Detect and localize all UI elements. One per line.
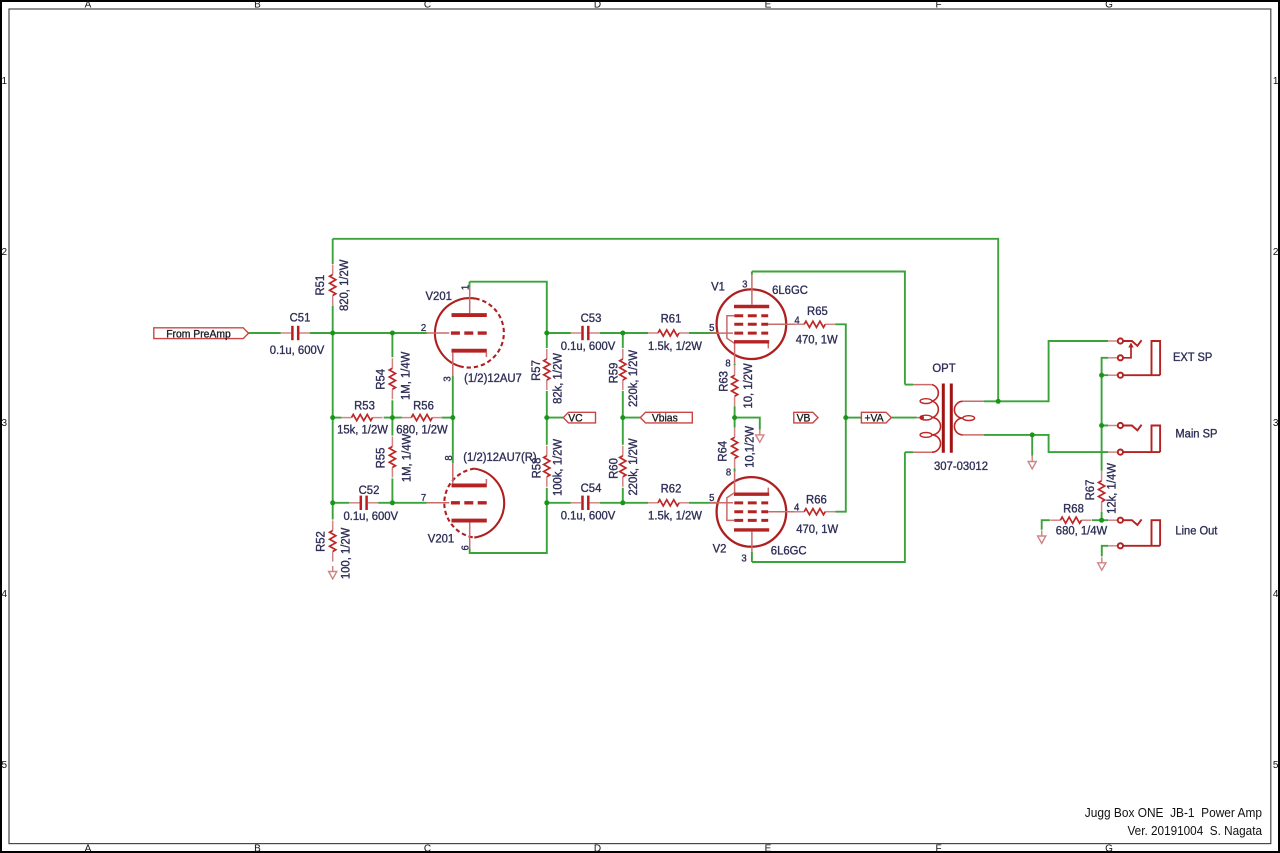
svg-text:G: G [1105,0,1113,11]
svg-text:100, 1/2W: 100, 1/2W [338,527,352,579]
svg-text:R60: R60 [606,458,620,479]
wire [546,488,548,503]
svg-text:F: F [935,0,941,11]
wire [1031,435,1033,456]
svg-text:Main SP: Main SP [1175,426,1217,440]
svg-text:C52: C52 [359,483,380,497]
V2 g3 tie [727,493,734,521]
svg-text:R53: R53 [354,398,375,412]
net label +VA [861,412,891,423]
svg-text:From PreAmp: From PreAmp [166,328,231,340]
svg-text:E: E [765,0,772,11]
svg-text:1.5k, 1/2W: 1.5k, 1/2W [648,509,702,523]
resistor R61 [648,332,658,334]
svg-text:C: C [424,843,431,853]
svg-text:6L6GC: 6L6GC [771,544,807,558]
resistor R57 [546,349,548,359]
svg-text:4: 4 [2,589,8,600]
V1 grid g1 [734,332,768,335]
svg-text:R65: R65 [807,304,828,318]
transformer OPT primary [932,385,941,453]
connector J Line Out [1108,519,1117,521]
capacitor C53 [581,326,584,340]
svg-text:82k, 1/2W: 82k, 1/2W [551,353,565,404]
transformer OPT secondary [954,401,962,435]
V1 screen pin 4 [768,323,804,325]
wire [332,306,334,520]
svg-text:2: 2 [421,322,426,334]
junction [330,415,335,420]
V201a grid [451,331,489,334]
resistor R67 [1101,471,1103,481]
svg-text:3: 3 [2,418,8,429]
svg-text:B: B [254,843,261,853]
resistor R66 [794,511,804,513]
wire [891,417,917,419]
svg-text:1M, 1/4W: 1M, 1/4W [399,434,413,483]
wire [734,364,736,366]
resistor R64 [734,427,736,437]
svg-text:D: D [594,0,601,11]
wire [332,239,334,264]
junction [996,399,1001,404]
junction [450,415,455,420]
OPT core [942,384,945,453]
svg-text:1: 1 [1273,76,1279,87]
svg-text:6L6GC: 6L6GC [772,283,808,297]
svg-text:A: A [85,843,92,853]
svg-text:6: 6 [460,545,472,550]
resistor R68 [1050,519,1060,521]
global label From PreAmp [154,328,249,339]
wire [622,391,624,445]
svg-text:(1/2)12AU7: (1/2)12AU7 [464,371,522,385]
svg-text:V2: V2 [713,542,727,556]
svg-text:5: 5 [2,760,8,771]
V2 cathode [734,493,769,496]
ground at Line Out [1098,563,1106,570]
V1 grid g2 [734,323,768,326]
svg-text:F: F [935,843,941,853]
wire [248,332,280,334]
svg-text:3: 3 [741,553,746,565]
svg-text:5: 5 [1273,760,1279,771]
net label Vbias [640,412,692,423]
V201a cathode hook [485,353,487,357]
svg-text:C: C [424,0,431,11]
svg-text:R62: R62 [661,481,682,495]
junction [390,500,395,505]
wire [310,332,427,334]
svg-text:(1/2)12AU7(R): (1/2)12AU7(R) [463,450,536,464]
svg-text:0.1u, 600V: 0.1u, 600V [561,339,616,353]
wire [623,417,641,419]
svg-text:EXT SP: EXT SP [1173,350,1212,364]
svg-text:4: 4 [1273,589,1279,600]
wire [835,324,846,511]
svg-text:0.1u, 600V: 0.1u, 600V [561,509,616,523]
wire [751,552,753,562]
wire [1092,519,1102,521]
svg-text:470, 1W: 470, 1W [796,333,838,347]
wire [1102,375,1109,425]
svg-text:V1: V1 [711,280,725,294]
svg-text:Ver. 20191004 S. Nagata: Ver. 20191004 S. Nagata [1128,823,1263,838]
wire [546,333,548,348]
svg-text:R68: R68 [1063,501,1084,515]
svg-text:B: B [254,0,261,11]
V2 plate [734,528,769,531]
V2 plate pin 3 [751,532,753,552]
resistor R55 [391,437,393,447]
svg-text:680, 1/2W: 680, 1/2W [396,422,448,436]
svg-text:A: A [85,0,92,11]
junction [390,415,395,420]
V1 cathode pin 8 [734,344,736,364]
junction [330,500,335,505]
wire [752,272,905,385]
junction [544,331,549,336]
svg-text:3: 3 [441,376,453,381]
wire [470,282,547,333]
wire [622,488,624,503]
svg-text:R58: R58 [529,458,543,479]
svg-text:VB: VB [797,413,811,425]
resistor R60 [622,446,624,456]
connector J EXT SP [1108,340,1117,342]
svg-text:Vbias: Vbias [652,413,678,425]
V2 grid g3 [734,519,768,522]
wire [546,391,548,445]
ground below R52 [329,572,337,579]
svg-text:8: 8 [726,467,731,479]
svg-text:470, 1W: 470, 1W [796,522,838,536]
wire [547,332,571,334]
svg-text:15k, 1/2W: 15k, 1/2W [337,422,388,436]
wire [1042,520,1050,530]
junction [620,331,625,336]
resistor R52 [332,521,334,531]
wire [735,418,760,430]
net label VC [563,412,595,423]
svg-text:5: 5 [709,492,714,504]
resistor R59 [622,349,624,359]
svg-text:R57: R57 [529,360,543,381]
V201b grid [451,501,489,504]
V1 plate pin 3 [751,275,753,305]
svg-text:1M, 1/4W: 1M, 1/4W [398,351,412,400]
svg-text:1: 1 [2,76,8,87]
V201b cathode [452,483,487,487]
V201b plate pin 6 [469,523,471,549]
junction [1099,373,1104,378]
resistor R51 [332,265,334,275]
connector J Main SP [1108,425,1117,427]
wire [452,376,454,464]
svg-text:8: 8 [725,358,730,370]
V201a cathode [452,349,487,353]
resistor R63 [734,365,736,375]
wire [1102,358,1109,375]
wire [689,332,717,334]
svg-text:R54: R54 [374,369,388,390]
resistor R56 [401,417,411,419]
svg-text:R64: R64 [716,441,730,462]
svg-text:8: 8 [443,455,455,460]
pentode V2 envelope [717,477,787,547]
junction [1099,423,1104,428]
ground at OPT secondary [1028,462,1036,469]
wire [391,478,393,502]
svg-text:10,1/2W: 10,1/2W [743,426,757,468]
svg-text:R61: R61 [661,312,682,326]
wire [391,333,393,357]
V1 cathode [734,340,769,343]
capacitor C52 [360,496,363,510]
V201a plate pin 1 [469,288,471,314]
svg-text:2: 2 [1273,247,1279,258]
svg-text:C53: C53 [581,311,602,325]
V201a plate [452,313,487,317]
wire [622,333,624,348]
wire [1102,546,1108,557]
wire [470,503,547,553]
OPT center tap pin +VA [917,417,921,419]
resistor R54 [391,358,393,368]
wire [547,417,564,419]
resistor R65 [794,323,804,325]
svg-text:R55: R55 [374,448,388,469]
svg-text:R59: R59 [606,363,620,384]
wire [384,417,403,419]
svg-text:1: 1 [459,285,471,290]
wire [333,502,350,504]
V201b grid pin 7 [427,502,450,504]
svg-text:220k, 1/2W: 220k, 1/2W [626,350,640,407]
wire [600,332,648,334]
svg-text:R63: R63 [717,371,731,392]
wire [1101,426,1103,471]
svg-text:R66: R66 [806,492,827,506]
svg-text:V201: V201 [426,289,452,303]
svg-text:V201: V201 [428,532,454,546]
svg-text:0.1u, 600V: 0.1u, 600V [344,509,399,523]
capacitor C54 [581,496,584,510]
svg-text:307-03012: 307-03012 [934,459,988,473]
wire [734,406,736,427]
svg-text:100k, 1/2W: 100k, 1/2W [551,439,565,496]
triode V201a envelope [435,298,475,367]
wire [378,502,427,504]
V201b cathode pin 8 [452,463,454,483]
wire [1102,512,1109,520]
svg-text:Jugg Box ONE JB-1 Power Amp: Jugg Box ONE JB-1 Power Amp [1085,805,1262,820]
svg-text:VC: VC [568,413,582,425]
svg-text:12k, 1/4W: 12k, 1/4W [1104,463,1118,514]
junction [620,415,625,420]
V2 cathode hook [767,488,769,493]
svg-text:1.5k, 1/2W: 1.5k, 1/2W [648,339,702,353]
V201b cathode hook [485,479,487,483]
svg-text:7: 7 [421,492,426,504]
V2 grid g2 [734,510,768,513]
junction [330,331,335,336]
svg-text:R56: R56 [413,398,434,412]
svg-text:D: D [594,843,601,853]
V2 grid pin 5 [710,502,733,504]
svg-text:10, 1/2W: 10, 1/2W [741,363,755,408]
resistor R53 [342,417,352,419]
junction [1099,518,1104,523]
wire [984,435,1108,452]
svg-text:G: G [1105,843,1113,853]
V2 grid g1 [734,501,768,504]
junction [620,500,625,505]
svg-text:C51: C51 [290,311,311,325]
wire [846,417,862,419]
V2 screen pin 4 [768,511,804,513]
V201b plate [452,519,487,523]
junction [732,415,737,420]
wire [689,502,717,504]
svg-text:+VA: +VA [864,413,883,425]
ground below R68 [1038,536,1046,543]
V1 g3 tie [727,316,734,343]
ground at cathode junction [756,435,764,442]
junction [390,331,395,336]
svg-text:Line Out: Line Out [1175,524,1218,538]
svg-text:R51: R51 [313,275,327,296]
net label VB [794,412,818,423]
wire [734,468,736,471]
junction [843,415,848,420]
wire [547,502,571,504]
wire [391,400,393,435]
V2 cathode pin 8 [734,472,736,493]
wire [905,384,913,386]
svg-text:5: 5 [709,322,714,334]
svg-text:680, 1/4W: 680, 1/4W [1056,524,1108,538]
wire [333,417,342,419]
junction [1030,432,1035,437]
wire [751,272,753,275]
V1 cathode hook [767,344,769,349]
svg-text:C54: C54 [581,481,602,495]
wire [333,239,999,401]
svg-text:2: 2 [2,247,8,258]
resistor R62 [648,502,658,504]
capacitor C51 [291,326,294,340]
V201a grid pin 2 [427,332,450,334]
svg-text:820, 1/2W: 820, 1/2W [337,259,351,311]
V1 grid g3 [734,314,768,317]
V201a cathode pin 3 [452,353,454,376]
svg-text:E: E [765,843,772,853]
wire [752,452,905,562]
junction [544,415,549,420]
V1 plate [734,305,769,308]
svg-text:0.1u, 600V: 0.1u, 600V [270,343,325,357]
resistor R58 [546,446,548,456]
svg-text:R67: R67 [1083,480,1097,501]
V1 grid pin 5 [710,332,733,334]
wire [442,417,453,419]
wire [984,341,1108,401]
triode V201b envelope [474,469,504,538]
pentode V1 envelope [717,289,787,359]
junction [544,500,549,505]
svg-text:3: 3 [742,279,747,291]
wire [600,502,648,504]
svg-text:R52: R52 [313,531,327,552]
wire [469,282,471,288]
svg-text:220k, 1/2W: 220k, 1/2W [626,438,640,495]
svg-text:OPT: OPT [932,361,956,375]
svg-text:3: 3 [1273,418,1279,429]
